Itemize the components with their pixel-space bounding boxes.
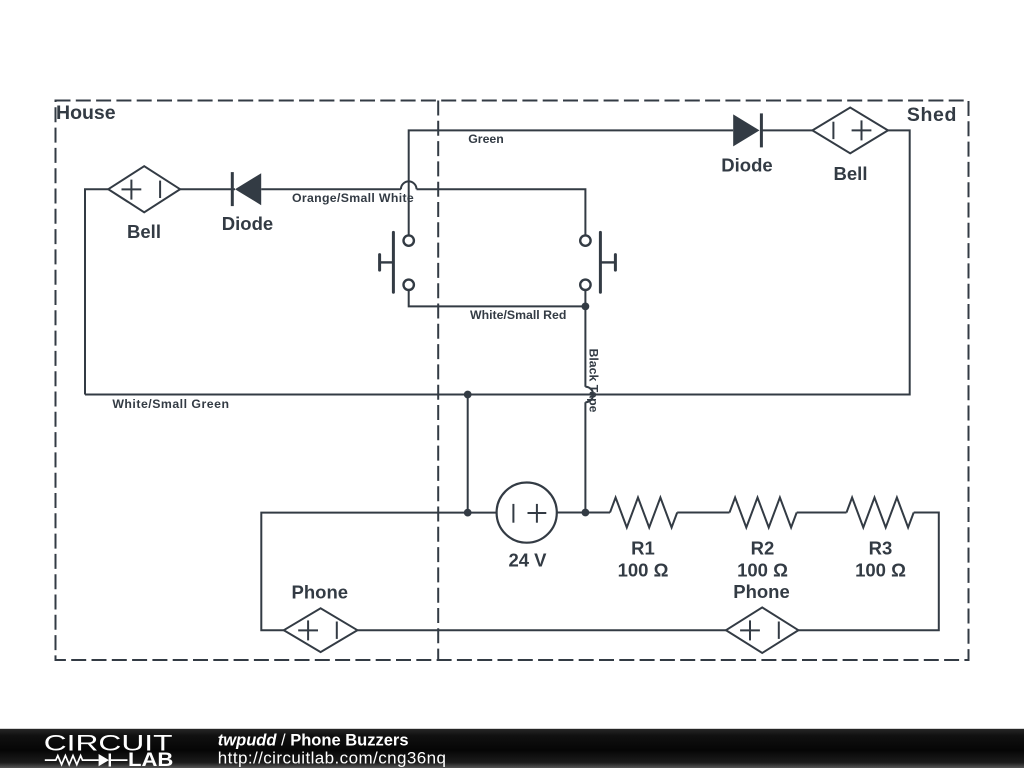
svg-text:Diode: Diode (222, 213, 273, 234)
svg-text:Shed: Shed (907, 104, 957, 126)
svg-text:Diode: Diode (721, 155, 772, 176)
svg-text:R1: R1 (631, 538, 655, 559)
svg-text:R2: R2 (751, 538, 775, 559)
svg-text:White/Small Green: White/Small Green (112, 397, 229, 411)
svg-text:24 V: 24 V (508, 550, 547, 571)
svg-text:LAB: LAB (128, 750, 173, 768)
svg-text:Phone: Phone (292, 582, 349, 603)
svg-text:House: House (56, 102, 116, 124)
svg-text:R3: R3 (869, 538, 893, 559)
svg-text:100 Ω: 100 Ω (855, 560, 906, 581)
svg-text:Black Tape: Black Tape (586, 349, 600, 413)
svg-text:http://circuitlab.com/cng36nq: http://circuitlab.com/cng36nq (218, 748, 447, 767)
svg-text:Bell: Bell (127, 221, 161, 242)
svg-text:twpudd / Phone Buzzers: twpudd / Phone Buzzers (218, 732, 409, 750)
svg-text:Bell: Bell (834, 163, 868, 184)
svg-text:Orange/Small White: Orange/Small White (292, 191, 414, 205)
svg-text:Green: Green (468, 132, 504, 146)
svg-text:100 Ω: 100 Ω (618, 560, 669, 581)
svg-text:100 Ω: 100 Ω (737, 560, 788, 581)
svg-text:White/Small Red: White/Small Red (470, 308, 566, 322)
svg-text:Phone: Phone (733, 581, 790, 602)
